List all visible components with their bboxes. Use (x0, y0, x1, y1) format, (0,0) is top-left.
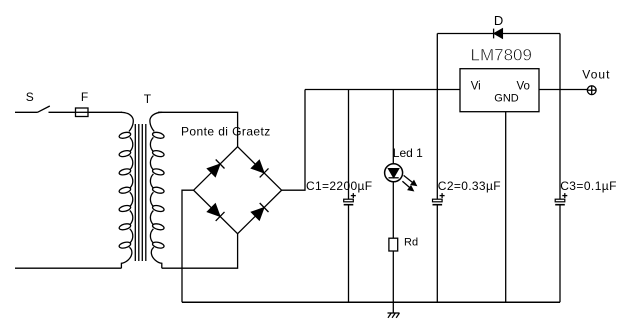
svg-text:GND: GND (494, 92, 519, 104)
diode D2 (upper-right, T to R) (252, 160, 269, 177)
wire regulator GND down (505, 112, 507, 303)
wire C3 lower (559, 205, 561, 302)
wire regulator output (539, 89, 587, 91)
primary winding (119, 112, 134, 268)
svg-text:Vi: Vi (471, 81, 481, 93)
wire ground bus (182, 301, 560, 303)
wire C2 lower (436, 205, 438, 302)
ground (388, 313, 400, 318)
svg-text:C3=0.1µF: C3=0.1µF (560, 179, 617, 193)
svg-text:T: T (144, 92, 152, 106)
svg-text:C2=0.33µF: C2=0.33µF (438, 179, 501, 193)
transformer T (119, 92, 165, 268)
wire LED to Rd (392, 182, 394, 238)
voltage regulator U1 LM7809 (460, 46, 539, 112)
wire Rd to ground bus (392, 251, 394, 302)
wire C1 lower (348, 205, 350, 302)
diode D1 (upper-left, L to T) (208, 160, 225, 177)
wire secondary top to bridge AC1 (158, 112, 238, 146)
core (135, 124, 146, 261)
capacitor C1 (306, 179, 372, 205)
wire C2 / protection branch vertical (436, 34, 438, 200)
svg-text:Rd: Rd (404, 237, 418, 249)
svg-text:S: S (26, 90, 34, 104)
wire bridge plus up to positive bus (282, 90, 305, 191)
wire positive bus (305, 89, 460, 91)
diode D3 (lower-left, L to B) (208, 204, 225, 221)
wire primary input bottom (15, 267, 121, 269)
svg-text:Vo: Vo (517, 81, 530, 93)
resistor Rd (389, 237, 418, 251)
wire right vertical (D / C3 branch) (559, 34, 561, 200)
bridge rectifier: diamond (194, 147, 282, 234)
switch S (26, 90, 50, 113)
svg-text:Vout: Vout (582, 68, 610, 82)
svg-text:D: D (494, 13, 503, 28)
svg-text:Led 1: Led 1 (393, 146, 423, 160)
svg-text:LM7809: LM7809 (471, 46, 532, 65)
wire secondary bottom to bridge AC2 (162, 234, 238, 269)
wire LED branch upper (392, 90, 394, 165)
terminal Vout (582, 68, 610, 95)
svg-text:Ponte di Graetz: Ponte di Graetz (181, 125, 271, 139)
capacitor C2 (433, 179, 501, 205)
wire primary input top (15, 111, 38, 113)
secondary winding (150, 112, 165, 268)
diode D (494, 13, 504, 39)
fuse F (76, 90, 89, 117)
wire protection diode top (437, 33, 560, 35)
svg-text:F: F (81, 90, 88, 104)
wire switch to fuse (49, 111, 123, 113)
wire ground stub (392, 302, 394, 313)
wire bridge minus to ground bus (182, 190, 194, 302)
diode D4 (lower-right, B to R) (252, 203, 269, 220)
node C1 branch wire upper (348, 90, 350, 200)
svg-text:C1=2200µF: C1=2200µF (306, 179, 372, 193)
LED Led 1 (385, 146, 424, 190)
capacitor C3 (555, 179, 617, 205)
